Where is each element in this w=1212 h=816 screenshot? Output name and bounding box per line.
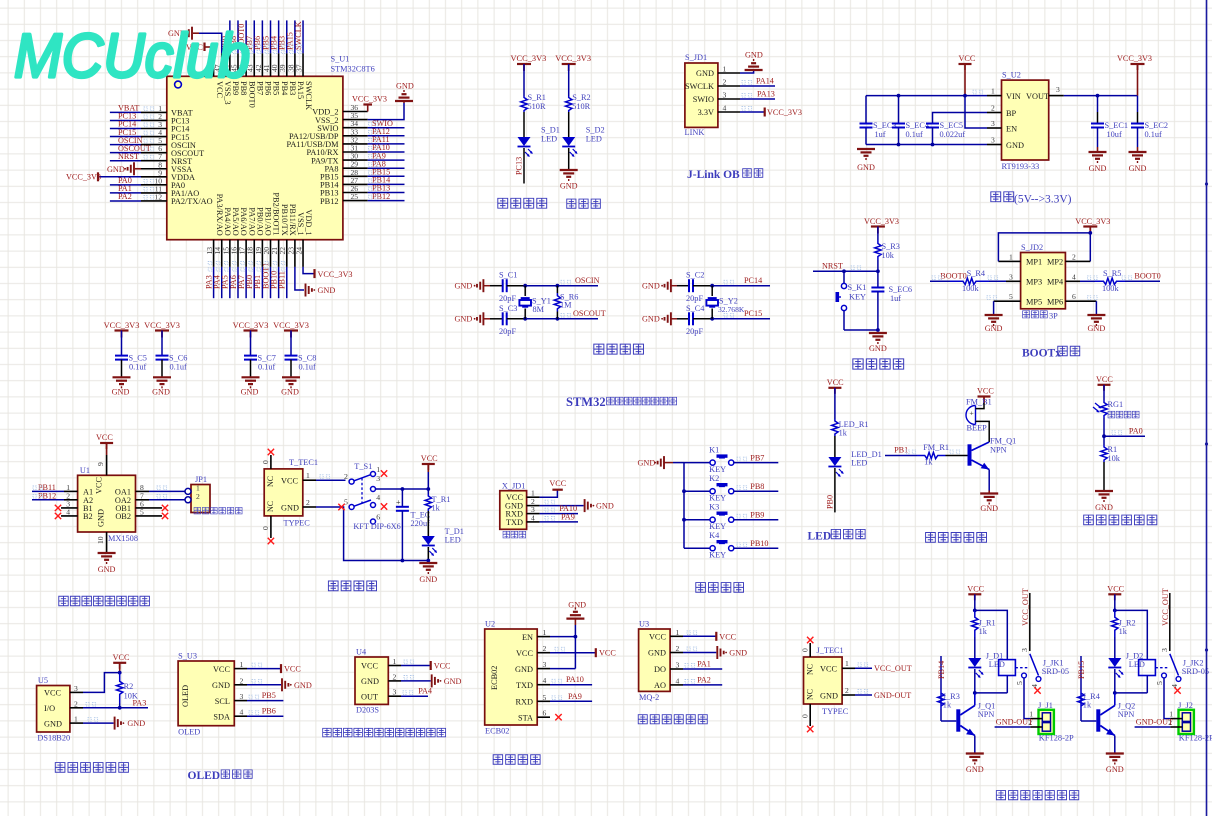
wire net PA10: [540, 513, 578, 515]
resistor FM_R1 1k: [917, 452, 946, 458]
wire PC14: [693, 285, 712, 287]
ground under S_C6: [153, 376, 171, 378]
svg-text:0: 0: [261, 526, 270, 530]
svg-text:OLED: OLED: [188, 770, 221, 782]
svg-text:GND: GND: [318, 286, 336, 295]
svg-text:20pF: 20pF: [499, 294, 516, 303]
svg-text:PB14: PB14: [937, 661, 946, 679]
connector S_JD1 J-Link body: [685, 63, 718, 127]
svg-text:3: 3: [543, 660, 547, 669]
svg-text:U4: U4: [356, 648, 367, 657]
svg-text:PA0: PA0: [1129, 427, 1143, 436]
S_U3 pin 4 SDA: [234, 715, 247, 717]
svg-text:10k: 10k: [1108, 454, 1121, 463]
svg-text:SCL: SCL: [215, 697, 230, 706]
S_JD1 pin 3 SWIO: [718, 98, 740, 100]
svg-text:(5V-->3.3V): (5V-->3.3V): [1014, 194, 1072, 206]
svg-text:GND: GND: [820, 691, 838, 700]
svg-text:NPN: NPN: [978, 710, 995, 719]
MCU right pin 36 VDD_2: [343, 111, 368, 113]
svg-text:PB11: PB11: [278, 271, 287, 289]
wire net PB0: [253, 267, 255, 298]
T_TEC1 pin2 GND: [303, 506, 316, 508]
wire buzzer to collector: [976, 421, 990, 442]
svg-text:PB3: PB3: [288, 81, 297, 95]
svg-text:3: 3: [723, 91, 727, 100]
wire net NRST: [110, 160, 141, 162]
pin-1 indicator circle: [175, 81, 182, 88]
capacitor S_C7 0.1uf: [250, 331, 252, 356]
svg-text:SRD-05: SRD-05: [1042, 667, 1069, 676]
wire GND rail: [866, 144, 987, 146]
svg-text:GND: GND: [596, 502, 614, 511]
wire net PA10: [368, 151, 405, 153]
svg-text:BOOTx: BOOTx: [1022, 348, 1061, 360]
ground at MCU pin23 VSS_1: [295, 267, 304, 290]
MCU left pin 1 VBAT: [141, 111, 167, 113]
svg-text:VCC: VCC: [96, 433, 113, 442]
svg-text:PA4: PA4: [418, 687, 432, 696]
capacitor S_EC6 1uf: [877, 271, 879, 287]
wire emitter to ground: [1114, 736, 1116, 754]
resistor J_R2 1k: [1112, 610, 1118, 637]
svg-text:4: 4: [376, 493, 380, 502]
svg-text:J_J2: J_J2: [1178, 701, 1193, 710]
push button K3 KEY: [684, 519, 710, 521]
svg-text:10uf: 10uf: [1107, 130, 1122, 139]
svg-text:I/O: I/O: [44, 704, 55, 713]
svg-text:GND: GND: [152, 388, 170, 397]
resistor LED_R1 1k: [832, 419, 838, 436]
svg-text:GND: GND: [857, 163, 875, 172]
svg-text:U5: U5: [38, 676, 48, 685]
svg-text:GND-OUT: GND-OUT: [874, 691, 911, 700]
capacitor S_C3 20pF: [502, 312, 504, 325]
svg-text:RT9193-33: RT9193-33: [1002, 162, 1040, 171]
wire: [568, 64, 570, 96]
capacitor S_EC5 0.022uf: [926, 123, 939, 125]
wire to LED: [427, 511, 429, 536]
wire to node: [1103, 418, 1105, 436]
wire net PB13: [368, 192, 405, 194]
X_JD1 pin 1 VCC: [527, 496, 540, 498]
svg-text:J_J1: J_J1: [1038, 701, 1053, 710]
MCU left pin 7 NRST: [141, 160, 167, 162]
wire buzzer to VCC: [976, 403, 985, 409]
MCU top pin 39 PB3: [286, 53, 288, 76]
title 晶振电路: [594, 344, 604, 354]
MCU top pin 37 SWCLK: [302, 53, 304, 76]
svg-text:NRST: NRST: [118, 152, 139, 161]
wire PC15: [693, 318, 712, 320]
svg-text:1: 1: [845, 659, 849, 668]
svg-text:GND: GND: [648, 649, 666, 658]
svg-text:GND: GND: [281, 388, 299, 397]
wire net PA6: [237, 267, 239, 298]
svg-text:S_D1: S_D1: [541, 126, 560, 135]
svg-text:VCC: VCC: [421, 454, 438, 463]
svg-text:100k: 100k: [962, 284, 979, 293]
S_U2 left pin 3: [987, 127, 1002, 129]
svg-text:K2: K2: [709, 474, 719, 483]
MCU right pin 31 PA10/RX: [343, 151, 368, 153]
LED S_D1: [518, 137, 531, 146]
wire: [523, 112, 525, 137]
ground at MCU pin8 VSSA: [135, 168, 141, 170]
svg-text:B2: B2: [83, 512, 93, 521]
svg-text:OSCOUT: OSCOUT: [573, 309, 606, 318]
connector J_TEC1 TYPEC body: [804, 657, 843, 704]
svg-text:4: 4: [723, 104, 727, 113]
svg-text:S_R3: S_R3: [882, 242, 900, 251]
svg-text:MP5: MP5: [1026, 297, 1042, 306]
LED T_D1: [422, 536, 435, 545]
svg-text:SWIO: SWIO: [693, 95, 714, 104]
svg-text:KEY: KEY: [709, 493, 726, 502]
MCU top pin 48 VCC: [213, 53, 215, 76]
svg-text:1k: 1k: [943, 701, 952, 710]
capacitor S_EC4 0.1uf: [898, 96, 900, 124]
wire pin2 to ground: [247, 684, 281, 686]
J_TEC1 bottom pin 0 no-connect: [809, 704, 811, 726]
svg-text:3: 3: [74, 684, 78, 693]
svg-text:VSS_1: VSS_1: [296, 212, 305, 236]
driver U1 MX1508 body: [78, 475, 136, 532]
wire BP to S_EC5: [933, 113, 988, 124]
jumper S_JD2 body: [1021, 253, 1066, 309]
svg-text:TYPEC: TYPEC: [284, 519, 311, 528]
svg-text:S_U2: S_U2: [1002, 71, 1021, 80]
wire pin4 to S_R5: [1080, 280, 1095, 282]
svg-text:20pF: 20pF: [499, 327, 516, 336]
svg-text:VCC_3V3: VCC_3V3: [1075, 217, 1110, 226]
svg-text:20pF: 20pF: [686, 327, 703, 336]
svg-text:S_C5: S_C5: [129, 354, 147, 363]
svg-text:VCC: VCC: [434, 662, 451, 671]
svg-text:PB0/AO: PB0/AO: [255, 207, 264, 236]
svg-text:VCC: VCC: [361, 662, 379, 671]
wire GND-OUT: [995, 726, 1031, 728]
MCU top pin 40 PB4: [278, 53, 280, 76]
svg-text:GND: GND: [642, 315, 660, 324]
svg-text:510R: 510R: [528, 102, 546, 111]
svg-text:10k: 10k: [882, 251, 895, 260]
svg-text:PB5: PB5: [272, 81, 281, 95]
svg-text:VCC: VCC: [1107, 585, 1124, 594]
svg-text:VCC: VCC: [549, 479, 566, 488]
svg-text:MP3: MP3: [1026, 278, 1042, 287]
svg-text:GND: GND: [396, 82, 414, 91]
svg-text:VCC: VCC: [281, 477, 299, 486]
wire net PB10: [734, 547, 779, 549]
svg-text:VCC_3V3: VCC_3V3: [864, 217, 899, 226]
svg-text:KEY: KEY: [709, 522, 726, 531]
svg-text:VCC: VCC: [827, 378, 844, 387]
photoresistor RG1 光敏电阻: [1101, 400, 1107, 418]
wire LED to collector junction: [974, 669, 976, 693]
wire to net PC13: [523, 148, 525, 184]
svg-text:12: 12: [154, 192, 162, 201]
MCU left pin 4 PC15: [141, 136, 167, 138]
svg-text:GND: GND: [1129, 164, 1147, 173]
svg-text:1: 1: [991, 87, 995, 96]
IC S_U1 STM32C8T6 body: [167, 76, 343, 239]
svg-text:+: +: [396, 498, 401, 507]
MCU right pin 32 PA11/USB/DM: [343, 143, 368, 145]
svg-text:3: 3: [376, 474, 380, 483]
svg-text:LED: LED: [851, 459, 867, 468]
svg-text:GND: GND: [294, 681, 312, 690]
svg-text:24: 24: [294, 247, 303, 255]
capacitor S_C8 0.1uf: [290, 331, 292, 356]
svg-text:J_TEC1: J_TEC1: [817, 646, 844, 655]
crystal S_Y1 8M: [524, 286, 526, 296]
svg-text:PB12: PB12: [372, 192, 390, 201]
svg-text:3: 3: [1160, 648, 1169, 652]
wire net PB6: [247, 715, 283, 717]
svg-text:6: 6: [543, 709, 547, 718]
svg-text:PB1/AO: PB1/AO: [264, 207, 273, 236]
MCU left pin 3 PC14: [141, 128, 167, 130]
U1 pin10 GND: [106, 532, 108, 553]
svg-text:S_C4: S_C4: [686, 304, 705, 313]
wire BOOT0 left: [930, 280, 950, 282]
capacitor S_C2 20pF: [688, 279, 690, 292]
svg-text:PC15: PC15: [744, 309, 762, 318]
U2 pin 2 VCC: [537, 652, 550, 654]
wire pin1 to VCC: [683, 635, 716, 637]
push button S_K1 KEY: [843, 271, 845, 283]
svg-text:NC: NC: [266, 501, 275, 512]
svg-text:0.1uf: 0.1uf: [129, 363, 147, 372]
no-connect STA: [555, 714, 561, 720]
svg-text:PA1: PA1: [697, 660, 711, 669]
U3 pin 2 GND: [670, 652, 683, 654]
svg-text:3P: 3P: [1049, 312, 1058, 321]
MCU left pin 2 PC13: [141, 119, 167, 121]
svg-text:3: 3: [240, 692, 244, 701]
svg-text:PB0: PB0: [826, 495, 835, 509]
wire net PA1: [683, 668, 722, 670]
svg-text:GND: GND: [455, 315, 473, 324]
svg-text:LED: LED: [541, 135, 557, 144]
wire VCC up to rail: [83, 673, 120, 693]
svg-text:U2: U2: [485, 620, 495, 629]
svg-text:PB7: PB7: [750, 453, 764, 462]
svg-text:PB7: PB7: [255, 81, 264, 95]
svg-text:3: 3: [991, 119, 995, 128]
wire net PB0: [834, 468, 836, 512]
svg-text:VCC_OUT: VCC_OUT: [1021, 588, 1030, 626]
svg-text:PA10: PA10: [566, 675, 584, 684]
svg-text:PB10: PB10: [750, 539, 768, 548]
ground under U1: [98, 552, 116, 554]
sheet border right edge: [1206, 0, 1208, 816]
T_TEC1 top pin 0 no-connect: [270, 455, 272, 469]
svg-text:PB10/TX: PB10/TX: [280, 204, 289, 236]
MCU top pin 45 PB8: [237, 53, 239, 76]
svg-text:S_C8: S_C8: [298, 354, 316, 363]
wire contact to terminal: [1024, 678, 1030, 719]
svg-text:PA4/AO: PA4/AO: [223, 207, 232, 235]
svg-text:VCC: VCC: [1096, 375, 1113, 384]
wire net PA2: [110, 200, 141, 202]
ground: [869, 332, 887, 334]
svg-text:STM32: STM32: [566, 395, 606, 409]
svg-text:BP: BP: [1006, 109, 1017, 118]
wire pin2 to VCC bar: [550, 652, 596, 654]
svg-text:VCC: VCC: [820, 665, 838, 674]
wire pin1 to ground: [740, 71, 754, 73]
wire net PA9: [368, 159, 405, 161]
resistor J_R3 1k base: [941, 720, 956, 722]
svg-text:VCC: VCC: [977, 387, 994, 396]
svg-text:PB5: PB5: [262, 691, 276, 700]
svg-text:9: 9: [96, 462, 105, 466]
U1 pins 4/5: [61, 515, 78, 517]
title 光照采集电路: [1084, 515, 1094, 525]
svg-text:3: 3: [991, 136, 995, 145]
wire VIN rail: [866, 95, 987, 97]
ground under S_EC3: [857, 148, 875, 150]
MCU left pin 11 PA1/AO: [141, 192, 167, 194]
svg-text:1uf: 1uf: [890, 294, 901, 303]
resistor S_R6 1M: [556, 286, 558, 293]
T_TEC1 pin1 VCC: [303, 479, 316, 481]
svg-text:MP6: MP6: [1047, 297, 1063, 306]
S_U2 left pin 1: [987, 95, 1002, 97]
svg-text:0.1uf: 0.1uf: [1145, 130, 1163, 139]
MCU bottom pin 15 PA5/AO: [229, 240, 231, 267]
svg-text:GND: GND: [127, 719, 145, 728]
MCU left pin 8 VSSA: [141, 168, 167, 170]
wire pin1 to VCC: [247, 668, 281, 670]
svg-text:T_TEC1: T_TEC1: [289, 458, 318, 467]
wire net PA9: [540, 521, 578, 523]
svg-text:VCC_3V3: VCC_3V3: [104, 321, 140, 330]
title 温度采集模块: [55, 763, 65, 773]
svg-text:T_S1: T_S1: [354, 462, 372, 471]
capacitor S_C4 20pF: [688, 312, 690, 325]
wire OSCIN: [507, 285, 526, 287]
wire to switch: [316, 479, 346, 481]
MCU bottom pin 21 PB10/TX: [278, 240, 280, 267]
wire EN/GND to ground: [574, 625, 576, 669]
wire net PB6: [261, 20, 263, 53]
ground under S_C5: [113, 376, 131, 378]
svg-text:25: 25: [351, 192, 359, 201]
ground to MCU pin47 VSS_3: [199, 33, 222, 53]
MCU top pin 38 PA15: [294, 53, 296, 76]
svg-text:20pF: 20pF: [686, 294, 703, 303]
svg-text:PB15: PB15: [1077, 661, 1086, 679]
ground under S_C7: [242, 376, 260, 378]
svg-text:PA2: PA2: [118, 192, 132, 201]
svg-text:GND: GND: [1095, 503, 1113, 512]
svg-text:S_K1: S_K1: [848, 283, 867, 292]
svg-text:ECB02: ECB02: [485, 727, 509, 736]
svg-text:VCC_3V3: VCC_3V3: [273, 321, 309, 330]
svg-text:GND: GND: [980, 504, 998, 513]
X_JD1 pin 4 TXD: [527, 521, 540, 523]
svg-text:VCC: VCC: [967, 585, 984, 594]
svg-text:NC: NC: [266, 476, 275, 487]
svg-text:1k: 1k: [432, 504, 441, 513]
relay blade and contacts: [1030, 654, 1039, 676]
capacitor S_EC2 0.1uf: [1137, 96, 1139, 112]
svg-text:0.1uf: 0.1uf: [170, 363, 188, 372]
U5 pin 3 VCC: [70, 691, 83, 693]
svg-text:0.1uf: 0.1uf: [299, 363, 317, 372]
wire OA2 to JP1: [149, 499, 185, 501]
svg-text:GND: GND: [560, 182, 578, 191]
svg-text:MQ-2: MQ-2: [639, 693, 659, 702]
J_TEC1 pin2 GND-OUT: [842, 694, 855, 696]
svg-text:PA6/AO: PA6/AO: [239, 207, 248, 235]
svg-text:PA14: PA14: [756, 77, 774, 86]
wire OSCOUT: [507, 318, 526, 320]
U2 pin 4 TXD: [537, 684, 550, 686]
transistor J_Q1 NPN: [956, 709, 960, 731]
svg-text:S_EC3: S_EC3: [873, 121, 897, 130]
wire net PA4: [221, 267, 223, 298]
wire net PA4: [401, 695, 428, 697]
key bus wire: [683, 463, 685, 549]
svg-text:VCC: VCC: [95, 476, 104, 494]
svg-text:PA9: PA9: [561, 512, 575, 521]
svg-text:2: 2: [196, 492, 200, 501]
no-connect X pins 3 4: [55, 505, 61, 511]
ground under S_EC1: [1089, 151, 1107, 153]
wire net PA11: [368, 143, 405, 145]
MCU bottom pin 19 PB1/AO: [261, 240, 263, 267]
wire net PA8: [368, 167, 405, 169]
MCU right pin 35 VSS_2: [343, 119, 368, 121]
VCC_3V3 bar at MCU pin24 VDD_1: [303, 267, 314, 274]
wire net SWCLK: [302, 20, 304, 53]
svg-text:PC13: PC13: [515, 157, 524, 175]
wire to relay coil: [975, 610, 1008, 659]
wire switch pin3 to node: [376, 488, 429, 490]
S_U2 left pin 3: [987, 144, 1002, 146]
svg-text:VCC_3V3: VCC_3V3: [233, 321, 269, 330]
svg-text:GND: GND: [97, 509, 106, 527]
title 可编程灯: [498, 198, 508, 208]
svg-text:FM_R1: FM_R1: [923, 443, 949, 452]
svg-text:VCC_OUT: VCC_OUT: [1161, 588, 1170, 626]
svg-text:GND: GND: [729, 649, 747, 658]
svg-text:OLED: OLED: [178, 728, 200, 737]
wire GND sideways: [83, 722, 114, 724]
wire to relay coil: [1115, 610, 1148, 659]
wire contact to terminal: [1164, 678, 1170, 719]
display S_U3 OLED body: [178, 661, 234, 726]
svg-text:S_EC5: S_EC5: [940, 121, 964, 130]
capacitor S_C5 0.1uf: [121, 331, 123, 356]
svg-text:NC: NC: [805, 689, 814, 700]
wire net PA12: [368, 135, 405, 137]
svg-text:0.022uf: 0.022uf: [940, 130, 966, 139]
MCU top pin 46 PB9: [229, 53, 231, 76]
capacitor S_EC1 10uf: [1097, 96, 1099, 112]
ground: [419, 562, 437, 564]
svg-text:0.1uf: 0.1uf: [906, 130, 924, 139]
svg-text:RXD: RXD: [515, 698, 533, 707]
MCU bottom pin 23 VSS_1: [294, 240, 296, 267]
svg-text:VCC_3V3: VCC_3V3: [511, 54, 547, 63]
wire net PA10: [550, 684, 592, 686]
svg-text:8M: 8M: [533, 305, 545, 314]
